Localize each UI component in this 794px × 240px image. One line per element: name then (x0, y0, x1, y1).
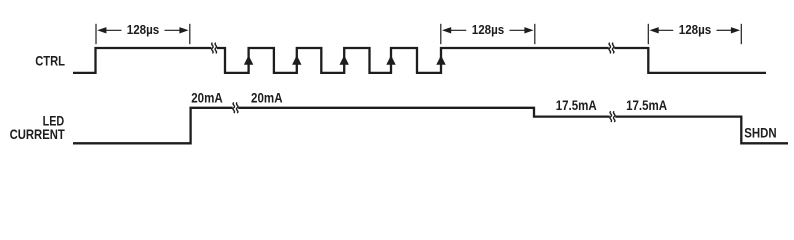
svg-text:20mA: 20mA (251, 89, 283, 105)
svg-text:128µs: 128µs (679, 22, 712, 37)
svg-text:SHDN: SHDN (744, 125, 776, 141)
wire CTRL waveform (73, 48, 766, 73)
svg-text:17.5mA: 17.5mA (556, 97, 597, 113)
svg-text:128µs: 128µs (472, 22, 505, 37)
dimension 128us #1 (96, 24, 190, 44)
dimension 128us #2 (441, 24, 535, 44)
arrow on rising edge 2 (292, 55, 301, 65)
arrow on rising edge 3 (340, 55, 349, 65)
break symbol on LED 20mA segment (233, 103, 238, 114)
arrow on rising edge 1 (244, 55, 253, 65)
break symbol on CTRL first high segment (212, 43, 217, 54)
svg-text:CTRL: CTRL (35, 53, 65, 69)
wire LED CURRENT waveform (73, 108, 788, 144)
break symbol on CTRL second high segment (609, 43, 614, 54)
svg-text:20mA: 20mA (191, 89, 223, 105)
dimension 128us #3 (648, 24, 741, 44)
svg-text:128µs: 128µs (127, 22, 160, 37)
svg-text:CURRENT: CURRENT (10, 126, 66, 142)
break symbol on LED 17.5mA segment (610, 111, 615, 122)
arrow on rising edge 4 (386, 55, 395, 65)
arrow on rising edge 5 (436, 55, 445, 65)
svg-text:17.5mA: 17.5mA (626, 97, 667, 113)
